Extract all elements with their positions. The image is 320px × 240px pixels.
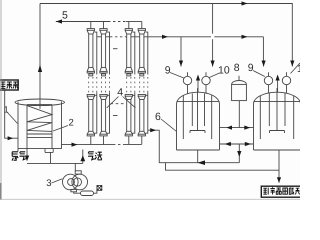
wire: second manifold from column bypasses to tank ports 9 <box>97 36 110 38</box>
gap continuation dashes between column pairs <box>113 48 121 50</box>
wire: vessel 1 bottom stub to pump <box>45 149 53 164</box>
numeral labels <box>4 9 309 189</box>
adsorption column 4a <box>87 22 97 145</box>
tail gas down arrow <box>25 156 29 162</box>
stirred tank (right) <box>254 60 301 150</box>
dampener capsule <box>81 191 94 196</box>
svg-text:6: 6 <box>155 111 161 123</box>
byproduct recovery box (bottom right) <box>261 186 302 197</box>
wire: inlet from treatment box to vessel 1 <box>5 90 18 138</box>
feed drop stubs above ports <box>181 60 213 67</box>
svg-text:5: 5 <box>62 9 68 21</box>
text: tail gas (wei qi) <box>12 151 26 160</box>
coil 2 inside vessel 1 <box>27 105 52 149</box>
arrow right on second manifold <box>162 35 168 39</box>
adsorption column 4c <box>125 22 135 145</box>
wire: drain from column bank to tanks drain header <box>148 130 240 163</box>
wire: riser to byproduct line <box>166 163 280 171</box>
CJK-like glyph blobs <box>0 82 299 195</box>
wire: transfer line lower between tanks <box>220 143 254 145</box>
wire: vessel 1 underline to gas wash riser <box>27 150 83 164</box>
stirred tank 6 (left) <box>177 60 220 150</box>
label leader lines <box>7 63 300 183</box>
transfer line arrows upper <box>226 126 232 130</box>
arrow down on transfer vertical <box>237 151 241 157</box>
arrow left on line 5 <box>56 19 62 23</box>
wire: main top recycle line from vessel 1 riser to right tank port 10 <box>40 4 292 61</box>
arrow right on top line <box>242 1 248 5</box>
arrow right on bottom manifold <box>72 143 78 147</box>
svg-text:9: 9 <box>248 62 254 74</box>
wire: drop to left tank port 9 <box>180 37 182 60</box>
transfer line arrows lower <box>225 142 231 146</box>
buffer vessel 8 <box>232 76 247 101</box>
text: treatment system box (li xi tong) <box>0 82 17 89</box>
wire: pump feed drop <box>74 163 76 170</box>
motor checker block <box>97 185 102 190</box>
svg-text:10: 10 <box>218 65 230 77</box>
adsorption column 4b <box>100 22 110 145</box>
wire: product line 5 manifold above columns <box>56 21 108 23</box>
wire: bottom manifold from vessel 1 to column bottoms <box>62 144 114 146</box>
treatment system box (left edge) <box>0 80 18 90</box>
wire: tail gas stub <box>18 149 27 156</box>
arrows down into tank ports <box>179 61 183 67</box>
text: gas wash (qi xi) <box>88 151 102 160</box>
wire: left tank bottom outlet <box>197 150 199 163</box>
wire: right tank bottom outlet to recovery box <box>278 150 280 183</box>
wire: transfer vertical from vessel 8 through transfer lines <box>238 101 240 163</box>
arrowheads <box>8 1 295 183</box>
wire: transfer line upper between tanks <box>220 127 254 129</box>
wire: branch down to left tank port 10 with crossover break <box>212 4 214 61</box>
gas wash up arrow <box>80 155 85 161</box>
arrow right into vessel 1 inlet <box>8 136 14 140</box>
svg-text:2: 2 <box>69 118 74 129</box>
wire: riser from vessel 1 top <box>39 4 41 109</box>
scan artifacts: bottom border line <box>0 198 300 200</box>
arrow right on column drain <box>150 128 156 132</box>
arrow up on vessel riser <box>38 65 42 73</box>
svg-text:9: 9 <box>165 65 171 77</box>
roots pump 3 <box>63 171 97 196</box>
arrows up agitator vents <box>196 75 200 81</box>
text: byproduct recovery system box <box>263 187 299 194</box>
scan artifacts: left border line <box>0 0 2 200</box>
absorber vessel 1 <box>15 99 65 149</box>
adsorption column 4d <box>138 22 148 145</box>
svg-text:8: 8 <box>234 62 240 74</box>
big arrow left on drain header <box>198 160 206 165</box>
svg-text:3: 3 <box>46 178 51 189</box>
arrow down into recovery box <box>277 177 281 183</box>
